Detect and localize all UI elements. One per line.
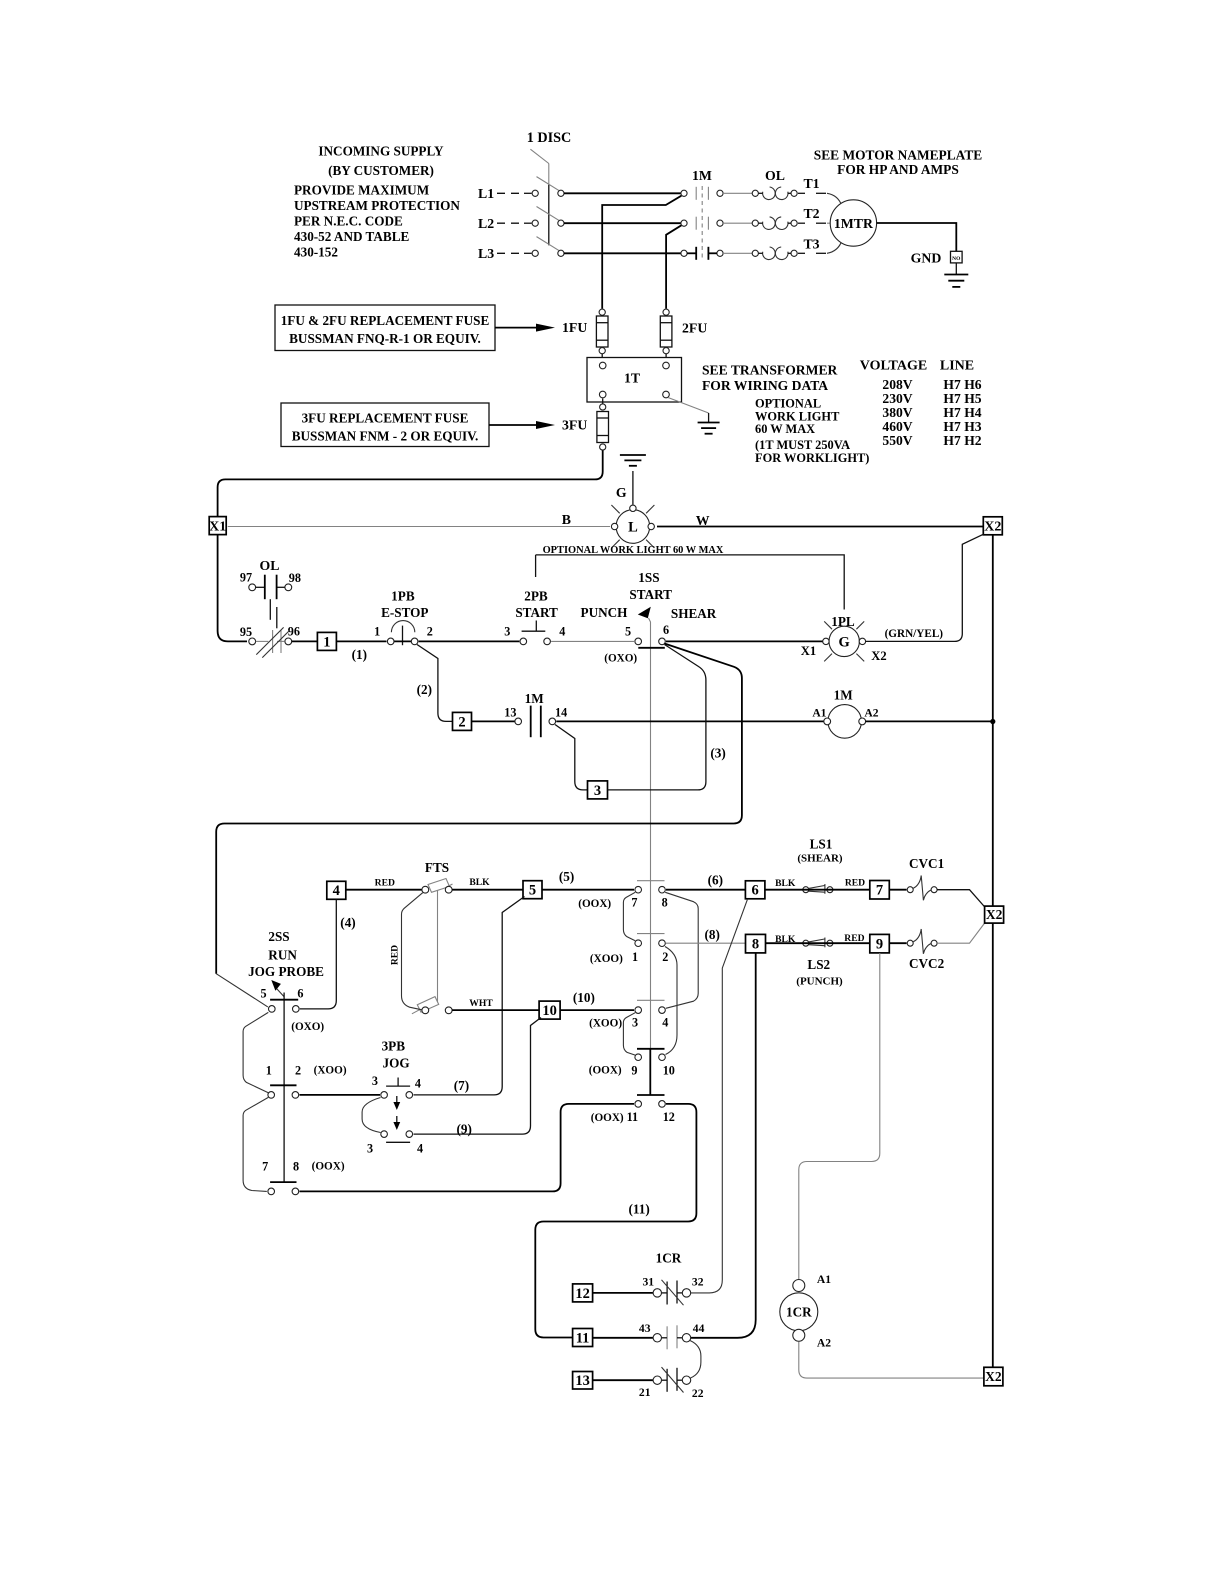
selector 1SS START contact 5-6 [581,570,717,1049]
svg-text:13: 13 [504,706,516,720]
svg-text:2: 2 [662,950,668,964]
ground symbol (transformer) [698,423,720,434]
svg-text:11: 11 [576,1330,590,1346]
wire drop (3) from 14 [555,725,588,790]
svg-text:(9): (9) [457,1121,472,1136]
wire rail to 2SS terminal 5 [216,974,268,1007]
wire 2SS 2 to 3PB [300,1094,381,1096]
coil CVC1 [907,856,944,900]
svg-text:SHEAR: SHEAR [671,606,717,621]
wire CVC2 to X2 [937,924,984,944]
svg-text:OPTIONAL WORK LIGHT 60 W MAX: OPTIONAL WORK LIGHT 60 W MAX [543,545,724,556]
wire LS1 to node 7 [765,889,869,891]
wire tap L2 to 2FU [666,225,681,308]
svg-text:T2: T2 [803,206,819,221]
wire W lamp to X2 [657,526,983,528]
ground symbol (work light G) [620,455,646,466]
svg-text:(OXO): (OXO) [291,1021,324,1033]
svg-text:(10): (10) [573,990,595,1005]
svg-text:3: 3 [594,783,601,799]
svg-text:UPSTREAM PROTECTION: UPSTREAM PROTECTION [294,198,460,213]
svg-text:SEE TRANSFORMER: SEE TRANSFORMER [702,363,838,378]
svg-text:2: 2 [458,714,465,730]
wire node 2 to contact 1M [472,720,515,722]
wire 2PB to 1SS [551,640,634,642]
svg-text:1CR: 1CR [656,1250,682,1265]
svg-text:JOG PROBE: JOG PROBE [248,964,324,979]
wire 1SS 3 to 9 jumper [623,1013,635,1055]
svg-text:4: 4 [415,1076,421,1090]
contact OL 95-96 [240,624,300,657]
note transformer wiring text [702,363,869,465]
svg-text:8: 8 [752,937,759,953]
svg-text:JOG: JOG [383,1055,410,1070]
svg-text:G: G [839,635,850,651]
wire 1SS 8 to 4 jumper [665,892,698,1008]
node 11 [573,1329,593,1347]
svg-text:FOR WORKLIGHT): FOR WORKLIGHT) [755,451,869,465]
wire coil 1M to X2 [866,720,993,722]
wire 1FU to 1T [601,354,603,358]
contact 1SS 1-2 [590,940,668,965]
svg-text:1: 1 [374,625,380,639]
wire 1SS 12 to node 11 [535,1104,696,1338]
contact 1M aux 13-14 [504,691,567,737]
svg-text:G: G [616,485,627,500]
node 5 [523,881,542,899]
svg-text:L2: L2 [478,216,494,231]
wire 1SS 2 to node 8 [666,942,746,944]
pushbutton 3PB JOG [367,1039,423,1156]
svg-text:X2: X2 [985,1369,1002,1384]
svg-text:BUSSMAN FNQ-R-1 OR EQUIV.: BUSSMAN FNQ-R-1 OR EQUIV. [289,331,481,346]
disconnect switch 1 DISC [527,130,572,256]
wire OL trip linkage [270,599,277,628]
wire 3PB linkage arrows [393,1096,400,1130]
wire 2FU to 1T [665,354,667,358]
svg-text:13: 13 [575,1373,590,1389]
svg-text:9: 9 [631,1064,637,1078]
svg-text:H7 H2: H7 H2 [943,433,981,448]
wire node 6 down to lower rail [216,644,742,974]
svg-text:(XOO): (XOO) [314,1064,347,1076]
svg-text:44: 44 [693,1322,705,1335]
svg-text:LS2: LS2 [807,957,830,972]
svg-text:START: START [515,605,558,620]
node 8 [746,934,766,953]
wire contactor to overload [723,193,752,253]
wire FTS red jumper [402,893,423,1010]
wire node 9 to CVC2 [889,942,906,944]
selector 1SS deck bars [637,881,665,1095]
wire X2 rail [990,535,995,1367]
svg-text:460V: 460V [882,419,912,434]
svg-text:2: 2 [427,625,433,639]
svg-text:FOR WIRING DATA: FOR WIRING DATA [702,378,828,393]
wire 1SS 7 to 1 jumper [623,892,635,940]
wire 1PL feed horizontal [536,555,845,610]
wire 1SS 2 to 10 jumper [665,947,677,1055]
svg-text:6: 6 [663,623,669,637]
svg-text:8: 8 [662,896,668,910]
svg-text:1FU: 1FU [562,320,587,335]
node 9 [870,934,890,953]
svg-text:7: 7 [631,896,637,910]
node 7 [870,881,890,900]
svg-text:(4): (4) [340,915,355,930]
svg-text:RED: RED [390,945,401,965]
svg-text:L3: L3 [478,246,494,261]
selector 2SS pointer [271,980,284,1182]
coil 1CR [780,1273,831,1349]
svg-text:430-152: 430-152 [294,244,338,259]
node T1 T2 T3 leads [798,176,842,253]
wire LS2 to node 9 [766,942,870,944]
wire 1PB to 2PB [419,640,520,642]
svg-text:PROVIDE MAXIMUM: PROVIDE MAXIMUM [294,183,430,198]
svg-text:4: 4 [662,1016,668,1030]
svg-text:(BY CUSTOMER): (BY CUSTOMER) [328,163,434,178]
svg-text:(OOX): (OOX) [589,1065,622,1077]
wire X1 rail down to contact 95 [218,535,247,642]
contact 1SS 3-4 [589,1007,668,1030]
svg-text:(8): (8) [705,927,720,942]
svg-text:(XOO): (XOO) [590,953,623,965]
svg-text:380V: 380V [882,405,912,420]
node 13 [573,1372,593,1390]
svg-text:1: 1 [632,950,638,964]
svg-text:12: 12 [575,1286,590,1302]
wire drop (2) from contact 2 [417,645,453,722]
contact 1SS 7-8 [578,886,668,909]
svg-text:(3): (3) [710,746,725,761]
node 3 [588,781,608,799]
contact 1CR 43-44 [639,1322,705,1349]
svg-text:32: 32 [692,1276,704,1289]
svg-text:H7 H4: H7 H4 [943,405,981,420]
svg-text:14: 14 [555,706,567,720]
svg-text:(XOO): (XOO) [589,1018,622,1030]
svg-text:3PB: 3PB [382,1039,406,1054]
node L1 L2 L3 labels and lead dashes [478,186,532,261]
svg-text:T1: T1 [803,176,819,191]
svg-text:2FU: 2FU [682,320,707,335]
svg-text:A1: A1 [817,1273,831,1286]
svg-text:1FU & 2FU REPLACEMENT FUSE: 1FU & 2FU REPLACEMENT FUSE [281,313,490,328]
contact 1CR 21-22 [639,1367,704,1400]
svg-text:GND: GND [911,250,942,265]
coil 1M [812,688,878,739]
svg-text:B: B [562,512,571,527]
node X2 mid [985,906,1004,923]
wire 14 to coil 1M [556,720,824,722]
svg-text:T3: T3 [803,237,819,252]
wire 3FU down to X1 rail [218,451,603,517]
wire 2SS 1 to 7 jumper [243,1097,268,1191]
fuse 3FU [597,399,609,451]
svg-text:X1: X1 [801,644,816,658]
svg-text:PUNCH: PUNCH [581,605,629,620]
svg-text:OL: OL [765,168,785,183]
pushbutton 2PB START [504,589,565,645]
svg-text:W: W [696,513,710,528]
svg-text:START: START [629,587,672,602]
svg-text:22: 22 [692,1387,704,1400]
wire coil 1CR A2 to X2 [799,1342,984,1379]
svg-text:A2: A2 [864,707,878,720]
svg-text:5: 5 [529,883,536,899]
note 1FU 2FU replacement fuse box [275,305,495,351]
contactor 1M power contacts [681,168,723,260]
svg-text:4: 4 [333,883,340,899]
svg-text:7: 7 [876,883,883,899]
svg-text:L: L [628,520,638,536]
svg-text:(OOX): (OOX) [312,1160,345,1172]
svg-text:3FU REPLACEMENT FUSE: 3FU REPLACEMENT FUSE [302,411,469,426]
node 10 [539,1001,560,1019]
wire L3 to contactor [564,252,681,254]
svg-text:1: 1 [266,1064,272,1078]
node 12 [573,1284,593,1302]
svg-text:97: 97 [240,570,252,584]
motor 1MTR [830,200,876,246]
svg-text:10: 10 [663,1064,675,1078]
fuse 2FU [660,309,672,354]
svg-text:3: 3 [372,1074,378,1088]
svg-text:RUN: RUN [268,948,297,963]
svg-text:1T: 1T [624,371,640,386]
node 6 [745,881,765,899]
wire node 13 to 1CR 21 [593,1379,654,1381]
contact 2SS 1-2 [266,1064,347,1099]
arrow to 3FU [489,418,587,433]
wire node 12 to 1CR 31 [593,1292,654,1294]
svg-text:95: 95 [240,625,252,639]
svg-text:230V: 230V [882,391,912,406]
svg-text:BLK: BLK [775,878,796,889]
ground terminal block GND [911,250,962,265]
svg-text:1SS: 1SS [638,570,659,585]
svg-text:550V: 550V [882,433,912,448]
svg-text:RED: RED [845,878,865,889]
wire 2PB stem to 1PL feed [535,555,537,577]
svg-text:X2: X2 [986,907,1003,922]
wire 1PL to X2 [866,534,984,641]
svg-text:3FU: 3FU [562,418,587,433]
svg-text:12: 12 [663,1110,675,1124]
wire node 5 to 1SS 7 [542,889,634,891]
limit switch LS2 [775,934,843,988]
svg-text:RED: RED [844,933,864,944]
wire 1CR 44 to 22 jumper [690,1341,701,1379]
svg-text:6: 6 [751,883,758,899]
svg-text:1: 1 [323,634,330,650]
limit switch LS1 [775,836,843,894]
wire 3PB 3-3 jumper [362,1098,380,1133]
wire node 3 up to node 6 [608,645,706,790]
svg-text:BLK: BLK [469,877,490,888]
svg-text:X2: X2 [984,520,1001,535]
svg-text:1PB: 1PB [391,589,415,604]
svg-text:X2: X2 [871,649,886,663]
contact OL 97-98 [240,558,301,599]
svg-text:CVC2: CVC2 [909,956,945,971]
svg-text:2: 2 [295,1064,301,1078]
svg-text:FOR HP AND AMPS: FOR HP AND AMPS [837,162,959,177]
table voltage line [860,359,982,448]
wire tap L1 to 1FU [602,196,681,309]
svg-text:(5): (5) [559,869,574,884]
ground symbol (motor) [944,263,968,287]
svg-text:LS1: LS1 [810,836,833,851]
svg-text:430-52 AND TABLE: 430-52 AND TABLE [294,229,409,244]
svg-text:96: 96 [288,624,300,638]
svg-text:4: 4 [559,625,565,639]
svg-text:5: 5 [261,987,267,1001]
node X2 top [983,517,1002,535]
svg-text:98: 98 [289,571,301,585]
svg-text:L1: L1 [478,186,494,201]
svg-text:4: 4 [417,1142,423,1156]
contact 1SS 9-10 [589,1054,675,1078]
wire node 9 down to coil 1CR A1 [799,953,880,1279]
wire 1T to ground [668,398,709,423]
note 3FU replacement fuse box [281,403,489,447]
svg-text:E-STOP: E-STOP [381,605,428,620]
wire CVC1 to X2 [937,890,984,907]
pilot light 1PL [801,614,887,663]
svg-text:1M: 1M [525,691,545,706]
svg-text:H7 H6: H7 H6 [943,377,981,392]
svg-text:1M: 1M [834,688,854,703]
svg-text:1CR: 1CR [786,1305,812,1320]
wire node 6 down to 1CR 32 [691,899,748,1293]
svg-text:SEE MOTOR NAMEPLATE: SEE MOTOR NAMEPLATE [814,148,982,163]
svg-text:10: 10 [542,1003,557,1019]
contact 1CR 31-32 [643,1276,704,1306]
node 4 [327,881,346,899]
svg-text:1MTR: 1MTR [834,216,874,231]
svg-text:8: 8 [293,1160,299,1174]
contact 1SS 11-12 [591,1101,675,1125]
svg-text:(11): (11) [628,1202,649,1217]
svg-text:(OOX): (OOX) [578,898,611,910]
svg-text:A1: A1 [812,707,826,720]
svg-text:9: 9 [876,937,883,953]
svg-text:43: 43 [639,1322,651,1335]
wire node 5 down to 3PB 4 (7) [414,897,525,1095]
svg-text:VOLTAGE: VOLTAGE [860,359,927,374]
svg-text:1 DISC: 1 DISC [527,130,572,146]
svg-text:NO: NO [952,256,961,262]
svg-text:31: 31 [643,1276,655,1289]
node 2 [453,712,472,730]
svg-text:(OOX): (OOX) [591,1112,624,1124]
node 1 [317,632,336,650]
wire 96 to node 1 [292,640,318,642]
arrow to 1FU [495,320,587,335]
pushbutton 1PB E-STOP [374,589,433,646]
svg-text:H7 H3: H7 H3 [943,419,981,434]
svg-text:2PB: 2PB [524,589,548,604]
svg-text:FTS: FTS [425,860,449,875]
svg-text:2SS: 2SS [268,929,289,944]
svg-text:LINE: LINE [940,359,974,374]
wire node 4 down to 2SS 6 [300,900,337,1009]
svg-text:(2): (2) [417,682,432,697]
svg-text:6: 6 [297,987,303,1001]
wire B X1 to lamp [228,526,610,528]
note incoming supply text [294,144,460,260]
svg-text:3: 3 [367,1142,373,1156]
wire node 4 RED to FTS [346,889,422,891]
wire 2SS 5 to 1 jumper [243,1012,268,1092]
wire FTS WHT to node 10 [452,1009,539,1011]
svg-text:OL: OL [260,558,280,573]
svg-text:(OXO): (OXO) [604,653,637,665]
wire L2 to contactor [564,222,681,224]
node X2 bottom [984,1367,1003,1386]
contact 2SS 7-8 [262,1160,345,1195]
svg-text:WHT: WHT [469,998,493,1009]
svg-text:(7): (7) [454,1078,469,1093]
wire node 1 to 1PB [336,640,386,642]
svg-text:(SHEAR): (SHEAR) [797,853,843,865]
wire 1SS to 1PL [666,640,826,642]
svg-text:X1: X1 [209,519,226,534]
svg-text:RED: RED [375,877,395,888]
wire node 10 to 1SS 3 [560,1009,634,1011]
svg-text:H7 H5: H7 H5 [943,391,981,406]
svg-text:PER N.E.C. CODE: PER N.E.C. CODE [294,214,403,229]
wire node 8 down to 1CR 44 [691,953,756,1338]
svg-text:A2: A2 [817,1337,831,1350]
svg-text:CVC1: CVC1 [909,856,944,871]
wire 2SS 8 to 1SS 11 [300,1104,635,1192]
selector 2SS labels [248,929,324,979]
note motor nameplate [814,148,982,178]
transformer 1T [587,358,682,403]
svg-text:INCOMING SUPPLY: INCOMING SUPPLY [318,144,444,159]
svg-text:1M: 1M [692,168,712,183]
svg-text:(PUNCH): (PUNCH) [796,975,843,987]
wire node 11 to 1CR 43 [593,1337,654,1339]
svg-text:(1): (1) [352,647,367,662]
svg-text:21: 21 [639,1386,651,1399]
svg-text:3: 3 [632,1016,638,1030]
coil CVC2 [907,929,944,971]
foot switch FTS [412,860,453,1014]
wire motor to ground block [877,223,957,251]
svg-text:11: 11 [627,1110,639,1124]
overload relay OL heaters [752,168,797,260]
wire 1SS 8 to node 6 [666,889,746,891]
svg-text:(6): (6) [708,872,723,887]
svg-text:5: 5 [625,625,631,639]
svg-text:(GRN/YEL): (GRN/YEL) [885,628,944,640]
svg-text:7: 7 [262,1160,268,1174]
svg-text:3: 3 [504,625,510,639]
svg-text:60 W MAX: 60 W MAX [755,422,815,436]
wire FTS BLK to node 5 [452,889,523,891]
wire node 10 down to 3PB second 4 (9) [414,1018,542,1135]
svg-text:208V: 208V [882,377,912,392]
node X1 [209,517,226,535]
fuse 1FU [596,309,608,354]
wire L1 to contactor [564,192,681,194]
contact 2SS 5-6 [261,987,304,1013]
svg-text:BUSSMAN FNM - 2 OR EQUIV.: BUSSMAN FNM - 2 OR EQUIV. [292,429,479,444]
